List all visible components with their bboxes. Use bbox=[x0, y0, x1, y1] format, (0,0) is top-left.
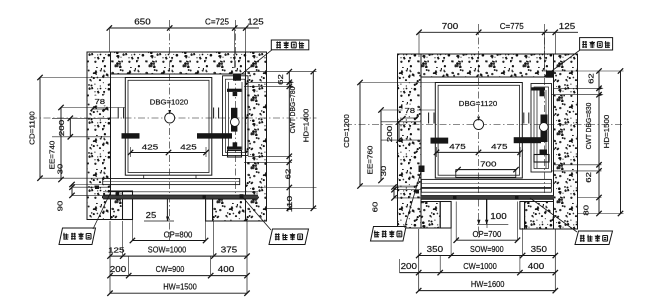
svg-text:700: 700 bbox=[480, 159, 496, 168]
svg-text:CD=1100: CD=1100 bbox=[28, 111, 37, 145]
svg-text:62: 62 bbox=[284, 169, 293, 180]
svg-text:OP=700: OP=700 bbox=[473, 229, 502, 239]
svg-text:C=725: C=725 bbox=[205, 17, 229, 27]
svg-text:125: 125 bbox=[559, 21, 576, 31]
svg-text:425: 425 bbox=[180, 143, 196, 152]
svg-text:110: 110 bbox=[285, 196, 294, 212]
svg-text:350: 350 bbox=[427, 244, 444, 254]
svg-text:125: 125 bbox=[247, 17, 264, 27]
svg-text:200: 200 bbox=[57, 120, 66, 136]
svg-text:HD=1400: HD=1400 bbox=[302, 109, 311, 143]
svg-text:HD=1500: HD=1500 bbox=[602, 115, 611, 149]
svg-text:400: 400 bbox=[528, 261, 545, 271]
svg-text:80: 80 bbox=[581, 205, 590, 216]
svg-text:25: 25 bbox=[146, 210, 157, 220]
svg-text:425: 425 bbox=[142, 143, 158, 152]
svg-text:475: 475 bbox=[491, 142, 507, 151]
svg-text:400: 400 bbox=[218, 264, 235, 274]
svg-text:60: 60 bbox=[371, 202, 380, 213]
svg-text:78: 78 bbox=[405, 106, 416, 115]
svg-text:30: 30 bbox=[56, 164, 65, 175]
svg-text:100: 100 bbox=[490, 211, 507, 221]
svg-text:475: 475 bbox=[449, 142, 465, 151]
svg-text:200: 200 bbox=[401, 261, 418, 271]
svg-text:78: 78 bbox=[95, 97, 106, 106]
svg-text:CD=1200: CD=1200 bbox=[342, 114, 351, 148]
svg-text:350: 350 bbox=[531, 244, 548, 254]
svg-text:125: 125 bbox=[108, 245, 124, 254]
svg-text:HW=1600: HW=1600 bbox=[471, 279, 505, 289]
svg-text:90: 90 bbox=[56, 201, 65, 212]
svg-text:375: 375 bbox=[221, 244, 238, 254]
svg-text:CWT DBG=830: CWT DBG=830 bbox=[584, 103, 593, 150]
svg-text:SOW=900: SOW=900 bbox=[470, 244, 504, 254]
svg-text:EE=760: EE=760 bbox=[366, 146, 375, 175]
svg-text:CW=900: CW=900 bbox=[156, 264, 185, 274]
svg-text:DBG=1120: DBG=1120 bbox=[459, 99, 497, 108]
svg-text:CW=1000: CW=1000 bbox=[463, 261, 497, 271]
svg-text:C=775: C=775 bbox=[500, 21, 524, 31]
svg-text:200: 200 bbox=[110, 264, 127, 274]
svg-text:DBG=1020: DBG=1020 bbox=[150, 98, 188, 107]
svg-text:OP=800: OP=800 bbox=[164, 229, 193, 239]
svg-text:CWT DBG=780: CWT DBG=780 bbox=[288, 87, 297, 134]
svg-text:200: 200 bbox=[385, 126, 394, 142]
svg-text:700: 700 bbox=[442, 21, 459, 31]
svg-text:650: 650 bbox=[134, 17, 151, 27]
svg-text:30: 30 bbox=[379, 166, 388, 177]
svg-text:HW=1500: HW=1500 bbox=[163, 282, 197, 292]
svg-text:62: 62 bbox=[276, 74, 285, 85]
svg-text:62: 62 bbox=[587, 73, 596, 84]
svg-text:SOW=1000: SOW=1000 bbox=[148, 244, 187, 254]
svg-text:62: 62 bbox=[584, 172, 593, 183]
